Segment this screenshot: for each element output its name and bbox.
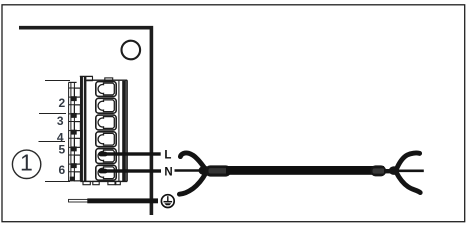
housing dark band <box>80 76 86 181</box>
terminal cavity 4 <box>96 132 116 147</box>
terminal leader line 3 <box>39 141 66 143</box>
svg-text:1: 1 <box>20 149 33 175</box>
wire L <box>99 152 108 157</box>
terminal cavity 3 <box>96 115 116 130</box>
wire N <box>99 169 108 174</box>
callout 1 <box>12 149 40 178</box>
terminal leader line bottom <box>45 181 70 183</box>
clamp contact 1 <box>69 88 81 101</box>
svg-text:L: L <box>164 150 171 162</box>
cable left conductor lower (PE) <box>179 173 206 195</box>
terminal cavity 1 <box>96 82 116 97</box>
housing top tabs <box>68 76 112 82</box>
cable right conductor lower <box>396 172 420 193</box>
terminal leader line 2 <box>39 113 66 115</box>
svg-text:2: 2 <box>59 96 66 110</box>
terminal cavity 5 <box>96 149 116 164</box>
cable right end sleeve <box>371 165 387 176</box>
clamp contact 5 <box>69 155 81 168</box>
clamp contact 2 <box>69 105 81 118</box>
clamp contact 3 <box>69 122 81 135</box>
clamp contact 6 <box>69 172 81 181</box>
clamp contact 4 <box>69 138 81 151</box>
cable right conductor upper <box>396 153 420 170</box>
clamp rail <box>69 83 75 182</box>
terminal block X1 <box>68 76 127 184</box>
svg-text:6: 6 <box>59 163 66 177</box>
earth wire stripped end <box>69 199 89 202</box>
earth wire <box>87 198 158 203</box>
svg-text:3: 3 <box>57 114 64 128</box>
svg-text:5: 5 <box>59 143 66 157</box>
mounting hole <box>122 41 141 60</box>
protective earth symbol <box>161 195 174 208</box>
cable jacket <box>226 166 384 175</box>
cable left conductor upper (L) <box>180 153 205 170</box>
svg-text:N: N <box>164 167 172 179</box>
housing body <box>80 80 127 181</box>
cable left conductor middle (N) <box>175 169 204 172</box>
terminal leader line top <box>45 80 70 82</box>
enclosure outline (corner of appliance housing) <box>19 28 151 215</box>
terminal cavity 6 <box>96 165 116 180</box>
mounting feet <box>83 181 120 184</box>
cable left end sleeve <box>199 166 211 175</box>
terminal cavity 2 <box>96 98 116 113</box>
cable right conductor middle <box>396 170 424 173</box>
